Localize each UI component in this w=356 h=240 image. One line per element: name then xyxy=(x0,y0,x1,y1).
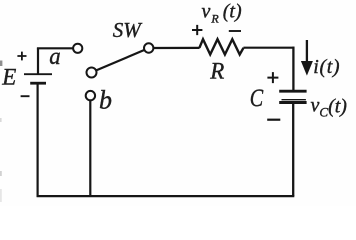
battery minus sign xyxy=(21,95,30,97)
switch SW blade arm xyxy=(96,50,144,70)
resistor R zigzag xyxy=(199,39,243,54)
node a contact circle xyxy=(73,44,82,53)
svg-text:i(t): i(t) xyxy=(313,56,340,78)
scan artifact marks at left edge xyxy=(0,61,2,203)
wire top-left horizontal to contact a xyxy=(37,47,73,49)
capacitor plus sign xyxy=(267,72,278,83)
battery E long plate xyxy=(24,73,52,75)
svg-text:a: a xyxy=(49,44,60,70)
capacitor C top plate xyxy=(279,90,306,93)
svg-text:E: E xyxy=(1,64,16,89)
wire right vertical lower (capacitor to bottom) xyxy=(292,104,294,196)
svg-text:SW: SW xyxy=(113,18,144,42)
resistor minus sign xyxy=(229,30,241,32)
svg-text:C: C xyxy=(250,85,264,112)
current arrow i(t) shaft xyxy=(306,40,308,63)
capacitor C bottom plate thin stroke xyxy=(282,99,306,101)
switch SW blade tip circle xyxy=(87,68,97,78)
svg-text:vR (t): vR (t) xyxy=(202,0,242,25)
wire battery bottom vertical xyxy=(36,84,38,197)
wire bottom horizontal xyxy=(37,195,295,197)
capacitor minus sign xyxy=(267,119,280,121)
capacitor C bottom plate thick stroke xyxy=(279,101,306,104)
node b contact circle xyxy=(86,91,95,100)
battery E short thick plate xyxy=(30,82,46,85)
svg-text:R: R xyxy=(209,58,224,83)
svg-text:b: b xyxy=(99,85,112,114)
wire right vertical upper (corner to capacitor) xyxy=(292,47,294,91)
wire contact b down to bottom xyxy=(89,101,91,197)
switch SW pivot circle xyxy=(144,43,153,52)
resistor plus sign xyxy=(192,25,202,35)
current arrow i(t) head xyxy=(301,61,313,76)
svg-text:vC(t): vC(t) xyxy=(311,95,348,120)
wire pivot to resistor xyxy=(154,47,200,49)
wire battery top vertical xyxy=(37,48,39,73)
wire resistor to top-right corner xyxy=(243,47,294,49)
battery plus sign xyxy=(17,52,26,61)
